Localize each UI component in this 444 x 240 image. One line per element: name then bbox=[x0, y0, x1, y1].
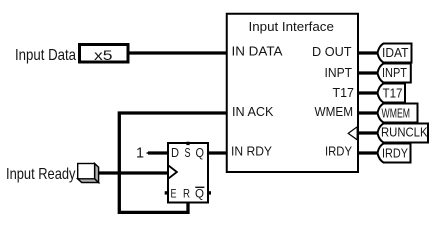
svg-text:IDAT: IDAT bbox=[382, 45, 409, 60]
svg-text:RUNCLK: RUNCLK bbox=[381, 124, 428, 139]
svg-text:IN DATA: IN DATA bbox=[232, 43, 283, 58]
svg-text:IRDY: IRDY bbox=[382, 146, 408, 161]
svg-text:S: S bbox=[185, 145, 191, 160]
svg-text:WMEM: WMEM bbox=[315, 104, 354, 119]
svg-text:E: E bbox=[171, 187, 177, 201]
svg-text:WMEM: WMEM bbox=[382, 106, 411, 121]
svg-text:D OUT: D OUT bbox=[312, 44, 352, 59]
svg-text:INPT: INPT bbox=[325, 65, 353, 80]
svg-text:Q: Q bbox=[195, 187, 204, 201]
svg-text:IRDY: IRDY bbox=[325, 143, 352, 158]
svg-text:T17: T17 bbox=[333, 85, 355, 100]
svg-text:Input Interface: Input Interface bbox=[249, 19, 334, 34]
svg-text:Input Ready: Input Ready bbox=[6, 166, 76, 183]
svg-text:INPT: INPT bbox=[382, 65, 407, 80]
svg-text:IN ACK: IN ACK bbox=[232, 104, 274, 119]
svg-text:D: D bbox=[171, 145, 179, 160]
svg-text:IN RDY: IN RDY bbox=[231, 143, 272, 158]
svg-text:Q: Q bbox=[196, 145, 205, 160]
svg-text:R: R bbox=[183, 187, 190, 201]
svg-text:x5: x5 bbox=[94, 47, 113, 63]
svg-text:1: 1 bbox=[136, 144, 144, 161]
svg-text:Input Data: Input Data bbox=[15, 47, 76, 64]
svg-text:T17: T17 bbox=[383, 86, 403, 101]
